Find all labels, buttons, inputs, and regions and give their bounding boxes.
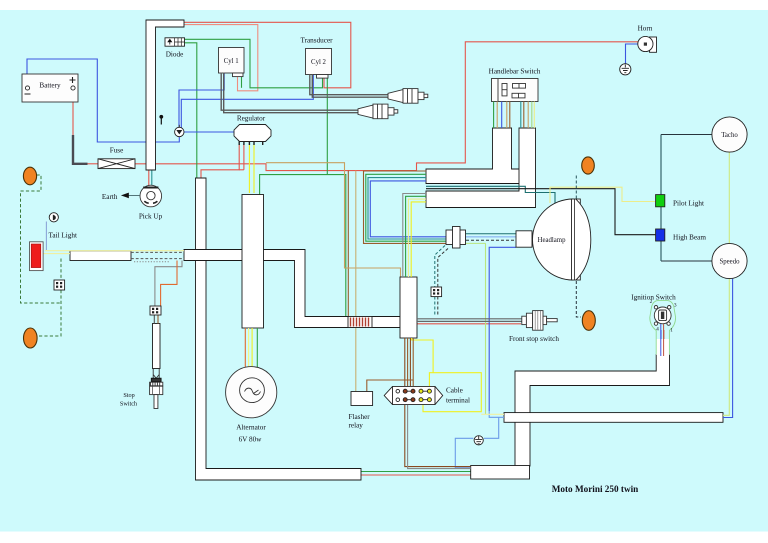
svg-text:Horn: Horn	[638, 25, 653, 33]
svg-text:Cable: Cable	[446, 387, 463, 395]
svg-text:Cyl 2: Cyl 2	[311, 59, 327, 66]
svg-text:Cyl 1: Cyl 1	[224, 58, 239, 65]
svg-text:Handlebar Switch: Handlebar Switch	[489, 68, 541, 76]
svg-text:Regulator: Regulator	[237, 115, 266, 123]
svg-text:Pick Up: Pick Up	[139, 213, 163, 221]
svg-text:6V 80w: 6V 80w	[239, 436, 263, 444]
svg-text:Moto Morini 250 twin: Moto Morini 250 twin	[552, 484, 639, 494]
svg-text:Pilot Light: Pilot Light	[673, 200, 704, 208]
svg-text:terminal: terminal	[446, 397, 470, 405]
svg-text:relay: relay	[349, 422, 364, 430]
svg-text:Alternator: Alternator	[236, 424, 266, 432]
svg-text:Headlamp: Headlamp	[538, 237, 567, 244]
svg-text:Battery: Battery	[39, 82, 61, 90]
svg-text:Stop: Stop	[123, 392, 134, 399]
svg-text:High Beam: High Beam	[673, 234, 706, 242]
svg-text:Speedo: Speedo	[719, 259, 740, 266]
svg-text:Transducer: Transducer	[300, 37, 333, 45]
svg-text:4: 4	[656, 327, 659, 333]
svg-text:Fuse: Fuse	[110, 147, 124, 155]
svg-text:Diode: Diode	[166, 51, 184, 59]
svg-text:2: 2	[650, 299, 653, 305]
svg-text:Tacho: Tacho	[721, 132, 738, 139]
svg-text:3: 3	[674, 303, 677, 309]
svg-text:Tail Light: Tail Light	[49, 232, 77, 240]
svg-text:Ignition Switch: Ignition Switch	[631, 294, 676, 302]
svg-text:Front stop switch: Front stop switch	[509, 335, 559, 343]
svg-text:Earth: Earth	[102, 193, 118, 201]
svg-text:Flasher: Flasher	[349, 413, 371, 421]
svg-text:1: 1	[670, 328, 673, 334]
svg-text:Switch: Switch	[120, 401, 138, 408]
